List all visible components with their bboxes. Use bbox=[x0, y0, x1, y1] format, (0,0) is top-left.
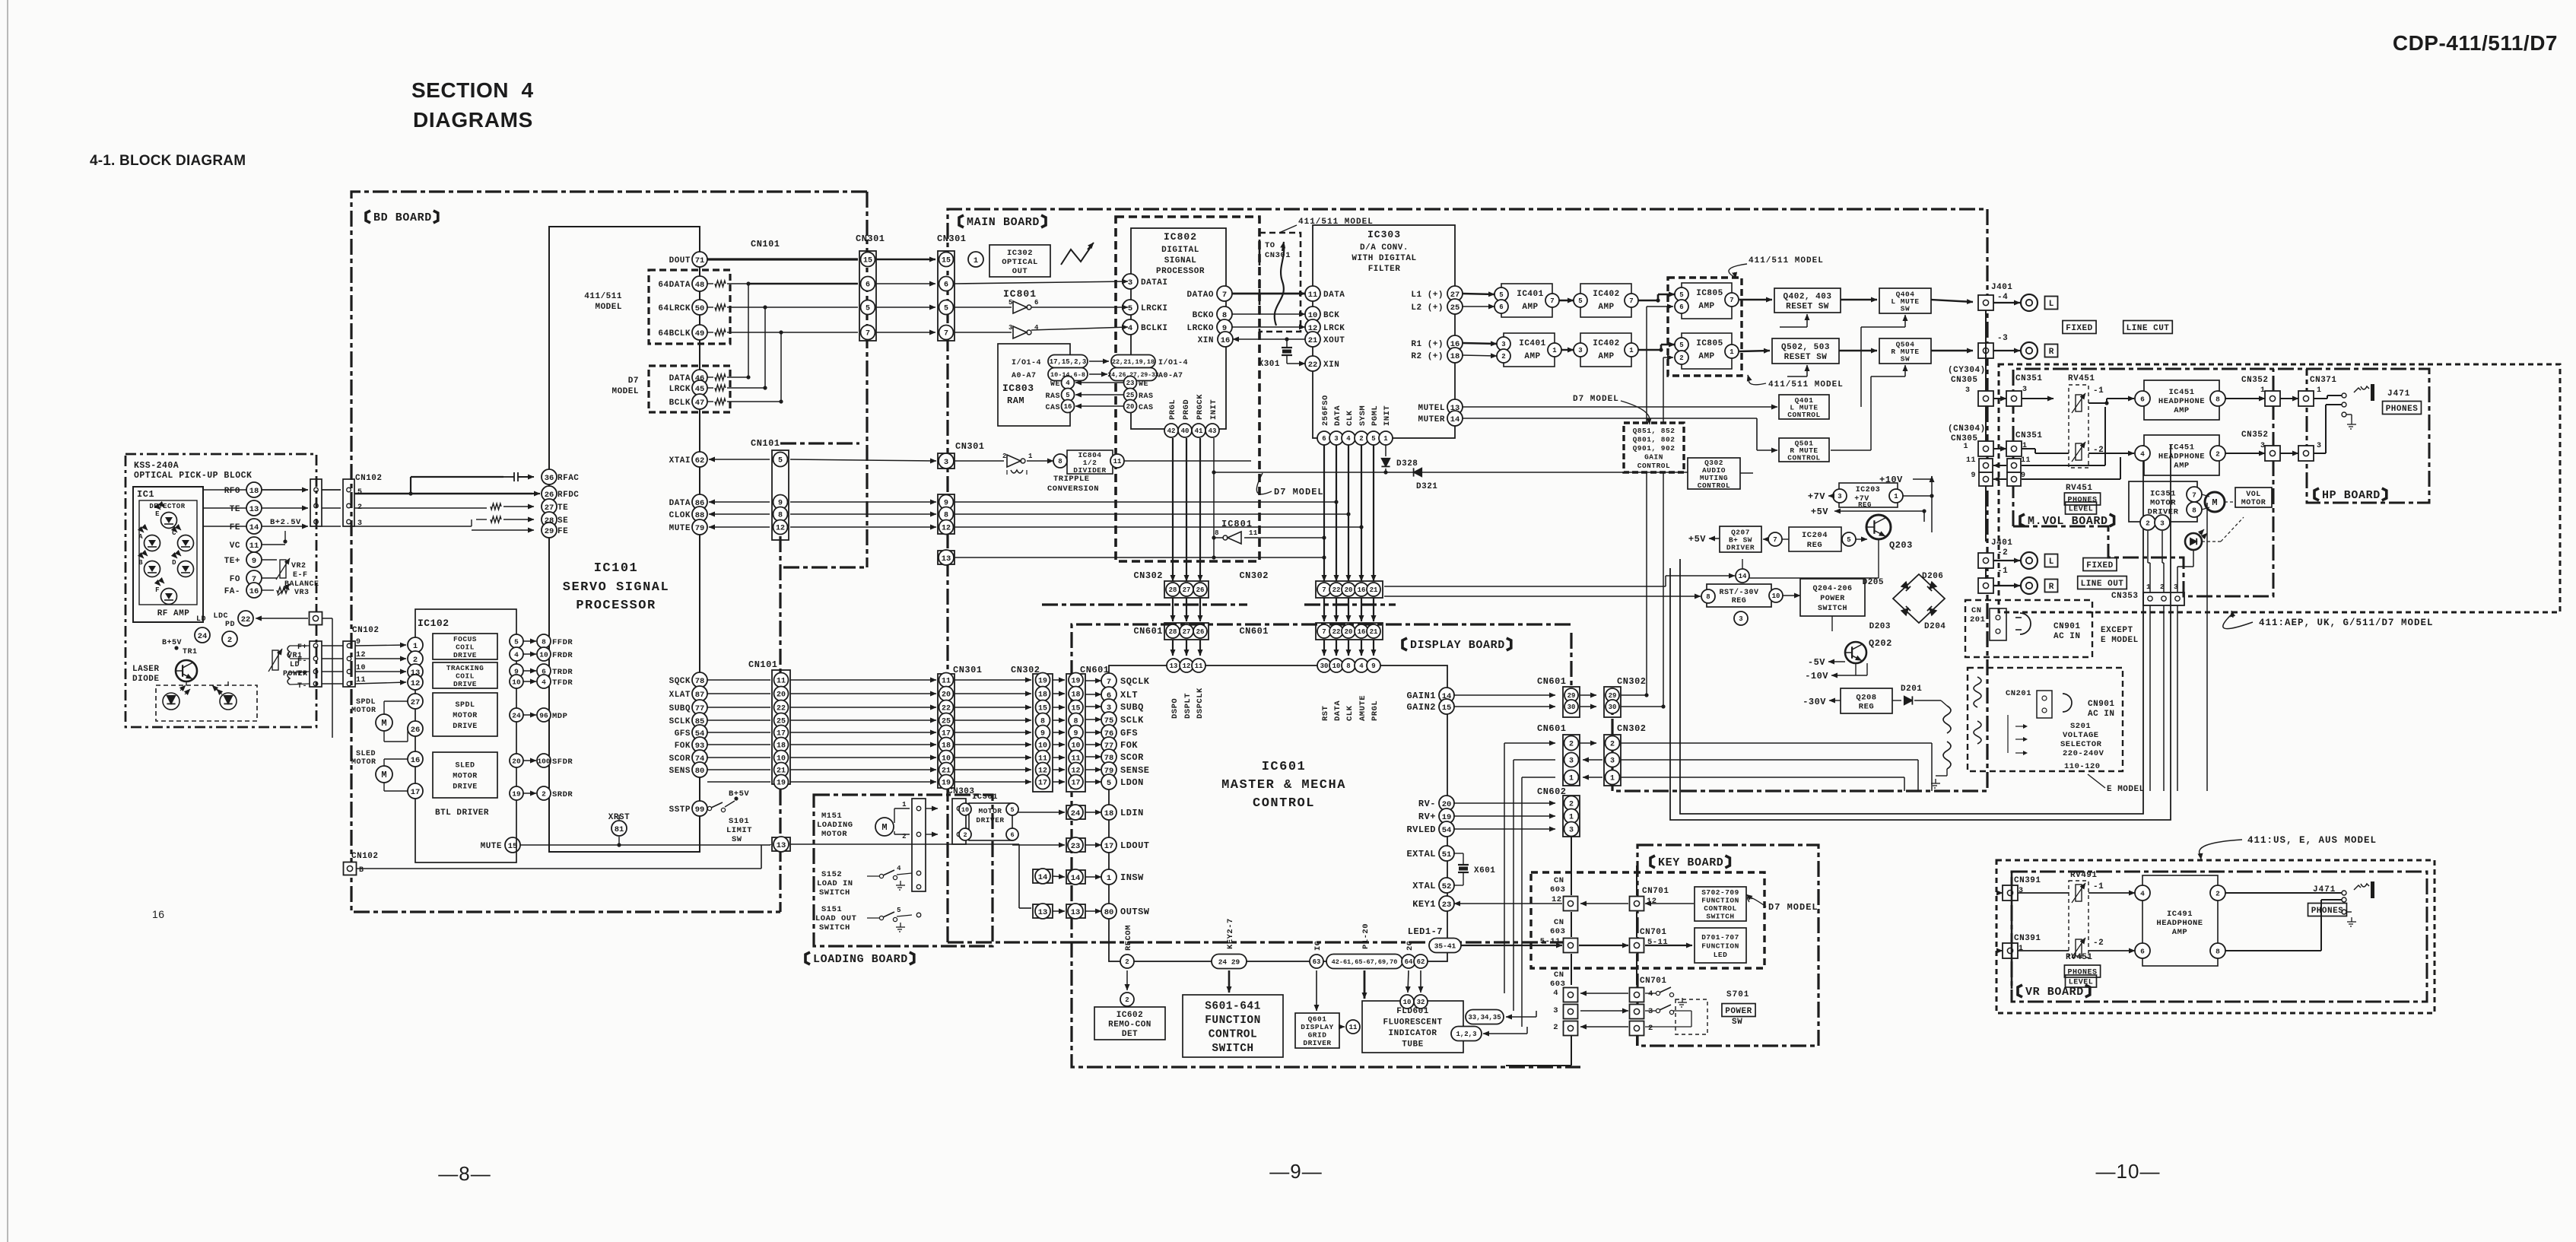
svg-text:MUTEL: MUTEL bbox=[1418, 404, 1445, 413]
svg-text:RV+: RV+ bbox=[1418, 812, 1436, 822]
svg-text:17: 17 bbox=[1038, 780, 1047, 788]
svg-text:IC203: IC203 bbox=[1856, 486, 1881, 494]
svg-text:16: 16 bbox=[411, 756, 421, 765]
svg-text:LEVEL: LEVEL bbox=[2069, 506, 2094, 514]
svg-text:21: 21 bbox=[1308, 336, 1318, 345]
svg-text:DATA: DATA bbox=[669, 499, 691, 508]
svg-text:SFDR: SFDR bbox=[552, 758, 573, 767]
svg-text:18: 18 bbox=[1071, 691, 1080, 700]
svg-text:17: 17 bbox=[411, 788, 421, 797]
svg-text:2: 2 bbox=[1569, 801, 1574, 809]
svg-text:CONVERSION: CONVERSION bbox=[1047, 484, 1099, 494]
svg-text:DATA: DATA bbox=[669, 374, 691, 383]
svg-text:3: 3 bbox=[1008, 324, 1013, 332]
svg-text:11: 11 bbox=[1308, 291, 1318, 300]
svg-text:MOTOR: MOTOR bbox=[821, 830, 847, 839]
svg-text:BD BOARD: BD BOARD bbox=[373, 211, 432, 224]
svg-text:64BCLK: 64BCLK bbox=[658, 329, 691, 338]
svg-text:30: 30 bbox=[1568, 704, 1576, 711]
svg-text:2: 2 bbox=[1501, 353, 1505, 361]
svg-text:REG: REG bbox=[1732, 597, 1747, 605]
svg-text:10: 10 bbox=[961, 806, 969, 814]
svg-text:IC802: IC802 bbox=[1164, 231, 1197, 243]
svg-text:14: 14 bbox=[1739, 573, 1747, 580]
svg-text:411/511 MODEL: 411/511 MODEL bbox=[1749, 256, 1824, 265]
svg-text:14: 14 bbox=[249, 523, 259, 532]
svg-text:8: 8 bbox=[1215, 529, 1219, 537]
svg-text:COIL: COIL bbox=[456, 643, 475, 651]
svg-text:S152: S152 bbox=[821, 870, 842, 879]
svg-text:BCK: BCK bbox=[1323, 311, 1339, 320]
svg-text:SQCK: SQCK bbox=[669, 677, 691, 686]
svg-text:IC1: IC1 bbox=[137, 489, 154, 500]
svg-text:SSTP: SSTP bbox=[669, 805, 691, 815]
svg-text:D7 MODEL: D7 MODEL bbox=[1274, 487, 1324, 497]
svg-text:SCOR: SCOR bbox=[669, 754, 691, 764]
svg-text:99: 99 bbox=[695, 805, 705, 815]
svg-text:5: 5 bbox=[357, 488, 363, 497]
svg-text:IC402: IC402 bbox=[1593, 290, 1620, 299]
svg-text:DSPO: DSPO bbox=[1170, 698, 1180, 719]
svg-text:XTAL: XTAL bbox=[1412, 881, 1436, 891]
svg-text:AMP: AMP bbox=[1698, 302, 1714, 311]
svg-text:62: 62 bbox=[695, 456, 705, 465]
svg-text:RFDC: RFDC bbox=[557, 491, 579, 500]
svg-text:25: 25 bbox=[1126, 392, 1135, 399]
svg-text:CN371: CN371 bbox=[2310, 376, 2337, 385]
svg-text:BCLKI: BCLKI bbox=[1141, 324, 1168, 333]
svg-text:M: M bbox=[381, 770, 386, 780]
svg-text:CN102: CN102 bbox=[355, 474, 383, 483]
svg-text:CLOK: CLOK bbox=[669, 511, 691, 520]
svg-text:DRIVE: DRIVE bbox=[453, 651, 477, 659]
svg-text:10: 10 bbox=[1038, 742, 1047, 751]
svg-text:8: 8 bbox=[1706, 593, 1710, 601]
svg-text:IC303: IC303 bbox=[1367, 229, 1401, 240]
svg-text:RESET SW: RESET SW bbox=[1784, 353, 1828, 362]
svg-text:IC301: IC301 bbox=[972, 793, 998, 802]
svg-text:BCLK: BCLK bbox=[669, 399, 691, 408]
svg-text:15: 15 bbox=[1442, 704, 1452, 713]
svg-text:2: 2 bbox=[227, 636, 232, 645]
svg-text:Q202: Q202 bbox=[1869, 638, 1892, 649]
svg-text:S201: S201 bbox=[2070, 722, 2091, 731]
svg-text:IC801: IC801 bbox=[1003, 288, 1037, 300]
svg-text:DIGITAL: DIGITAL bbox=[1161, 246, 1199, 255]
svg-text:MOTOR: MOTOR bbox=[978, 807, 1002, 815]
svg-text:MOTOR: MOTOR bbox=[2241, 499, 2266, 507]
svg-text:—10—: —10— bbox=[2096, 1160, 2161, 1183]
svg-text:KEY2-7: KEY2-7 bbox=[1226, 918, 1235, 949]
svg-text:CN102: CN102 bbox=[351, 852, 379, 861]
svg-text:CN901: CN901 bbox=[2053, 622, 2081, 631]
svg-text:PROCESSOR: PROCESSOR bbox=[1156, 267, 1205, 276]
svg-text:DRIVE: DRIVE bbox=[453, 723, 478, 731]
svg-text:GAIN: GAIN bbox=[1644, 453, 1663, 461]
svg-text:TRACKING: TRACKING bbox=[446, 664, 484, 672]
svg-text:FILTER: FILTER bbox=[1368, 265, 1401, 274]
svg-text:POWER: POWER bbox=[1725, 1007, 1752, 1016]
svg-text:30: 30 bbox=[1320, 662, 1329, 670]
svg-text:45: 45 bbox=[695, 385, 705, 394]
svg-text:VR2: VR2 bbox=[291, 562, 307, 570]
svg-text:7: 7 bbox=[1322, 628, 1326, 636]
svg-text:MUTE: MUTE bbox=[481, 842, 502, 851]
svg-text:LINE OUT: LINE OUT bbox=[2081, 580, 2124, 589]
svg-text:7: 7 bbox=[866, 330, 870, 338]
svg-text:IC102: IC102 bbox=[418, 618, 449, 629]
svg-text:7: 7 bbox=[944, 330, 948, 338]
svg-text:CN101: CN101 bbox=[751, 438, 780, 449]
svg-text:19: 19 bbox=[512, 789, 521, 798]
svg-text:PGML: PGML bbox=[1371, 405, 1380, 426]
svg-text:41: 41 bbox=[1195, 427, 1203, 435]
svg-text:79: 79 bbox=[695, 524, 705, 533]
svg-text:X301: X301 bbox=[1259, 360, 1280, 369]
svg-text:CN601: CN601 bbox=[1537, 723, 1567, 734]
svg-text:3: 3 bbox=[2022, 386, 2028, 394]
svg-text:16: 16 bbox=[1064, 403, 1072, 411]
svg-text:D205: D205 bbox=[1863, 578, 1884, 587]
svg-text:603: 603 bbox=[1550, 885, 1565, 894]
svg-text:MOTOR: MOTOR bbox=[351, 707, 376, 715]
svg-text:MOTOR: MOTOR bbox=[351, 758, 376, 767]
svg-text:4: 4 bbox=[1346, 435, 1351, 443]
svg-text:J471: J471 bbox=[2387, 389, 2410, 399]
svg-text:CN302: CN302 bbox=[1133, 570, 1163, 581]
svg-text:8: 8 bbox=[944, 512, 948, 520]
svg-text:SWITCH: SWITCH bbox=[1706, 913, 1734, 921]
svg-text:2: 2 bbox=[1002, 453, 1007, 460]
svg-text:CN: CN bbox=[1554, 876, 1564, 885]
svg-text:20: 20 bbox=[1126, 403, 1135, 411]
svg-text:26: 26 bbox=[545, 491, 554, 500]
svg-text:4: 4 bbox=[542, 678, 546, 686]
svg-text:X601: X601 bbox=[1474, 866, 1495, 875]
svg-text:E MODEL: E MODEL bbox=[2101, 636, 2139, 645]
svg-text:B: B bbox=[138, 559, 143, 567]
svg-text:FOK: FOK bbox=[1120, 740, 1138, 751]
svg-text:49: 49 bbox=[695, 329, 705, 338]
svg-text:LED1-7: LED1-7 bbox=[1408, 926, 1443, 937]
svg-text:12: 12 bbox=[942, 525, 951, 533]
svg-text:COIL: COIL bbox=[456, 672, 475, 680]
svg-text:TE: TE bbox=[230, 505, 240, 514]
svg-text:MOTOR: MOTOR bbox=[453, 712, 478, 720]
svg-text:CLK: CLK bbox=[1345, 410, 1355, 426]
svg-text:D201: D201 bbox=[1901, 685, 1922, 694]
svg-text:DETECTOR: DETECTOR bbox=[149, 503, 185, 510]
svg-text:-1: -1 bbox=[1997, 567, 2008, 576]
svg-text:6: 6 bbox=[1034, 299, 1039, 307]
svg-text:22,21,19,18: 22,21,19,18 bbox=[1112, 358, 1155, 366]
svg-text:-3: -3 bbox=[1997, 334, 2008, 343]
svg-text:50: 50 bbox=[695, 304, 705, 313]
svg-text:5: 5 bbox=[944, 305, 948, 313]
svg-text:REG: REG bbox=[1859, 702, 1874, 711]
svg-text:E: E bbox=[155, 510, 160, 518]
svg-text:SWITCH: SWITCH bbox=[1818, 605, 1847, 613]
svg-text:SLED: SLED bbox=[356, 750, 376, 758]
svg-text:4: 4 bbox=[1066, 380, 1070, 387]
svg-text:L: L bbox=[2049, 557, 2054, 567]
svg-text:S151: S151 bbox=[821, 905, 842, 914]
svg-text:M: M bbox=[381, 718, 386, 729]
svg-text:EXCEPT: EXCEPT bbox=[2101, 626, 2133, 635]
svg-text:11: 11 bbox=[2021, 456, 2031, 465]
svg-text:LDOUT: LDOUT bbox=[1120, 840, 1150, 851]
svg-text:RECOM: RECOM bbox=[1124, 925, 1133, 951]
svg-text:7: 7 bbox=[1629, 297, 1633, 305]
svg-text:RFAC: RFAC bbox=[557, 474, 579, 483]
svg-text:IC351: IC351 bbox=[2150, 489, 2176, 498]
svg-text:CN701: CN701 bbox=[1640, 977, 1667, 986]
svg-text:1: 1 bbox=[1383, 435, 1388, 443]
svg-text:LRCKO: LRCKO bbox=[1186, 324, 1214, 333]
svg-text:100: 100 bbox=[537, 757, 550, 765]
svg-text:62: 62 bbox=[1417, 958, 1425, 966]
svg-text:411/511: 411/511 bbox=[584, 292, 622, 301]
svg-text:VR3: VR3 bbox=[294, 589, 310, 597]
svg-text:-1: -1 bbox=[2093, 882, 2104, 891]
svg-text:2: 2 bbox=[1648, 1024, 1653, 1033]
svg-text:4: 4 bbox=[2140, 889, 2145, 897]
svg-text:L1 (+): L1 (+) bbox=[1411, 291, 1444, 300]
svg-text:+5V: +5V bbox=[1688, 534, 1706, 545]
svg-text:3: 3 bbox=[1107, 704, 1111, 713]
svg-text:IC601: IC601 bbox=[1262, 760, 1307, 774]
svg-text:8: 8 bbox=[542, 637, 546, 646]
svg-text:2: 2 bbox=[1125, 996, 1129, 1004]
svg-text:5: 5 bbox=[1128, 304, 1132, 313]
svg-text:+5V: +5V bbox=[1811, 507, 1828, 517]
svg-text:42: 42 bbox=[1167, 427, 1176, 435]
svg-text:LASER: LASER bbox=[132, 665, 160, 674]
svg-text:CAS: CAS bbox=[1045, 404, 1060, 412]
svg-text:10: 10 bbox=[1071, 742, 1080, 751]
svg-text:(CY304): (CY304) bbox=[1948, 366, 1986, 375]
svg-text:10: 10 bbox=[1772, 592, 1780, 600]
svg-text:D206: D206 bbox=[1922, 572, 1943, 581]
svg-text:(CN304): (CN304) bbox=[1948, 424, 1986, 434]
svg-text:PD: PD bbox=[225, 621, 235, 629]
svg-text:IC101: IC101 bbox=[594, 561, 639, 576]
svg-text:8: 8 bbox=[2215, 395, 2220, 403]
svg-text:LEVEL: LEVEL bbox=[2069, 979, 2094, 987]
svg-text:XLT: XLT bbox=[1120, 690, 1138, 700]
svg-text:IC302: IC302 bbox=[1007, 249, 1033, 258]
svg-text:17: 17 bbox=[1104, 842, 1114, 851]
svg-text:D204: D204 bbox=[1924, 622, 1945, 631]
svg-text:IC602: IC602 bbox=[1116, 1011, 1144, 1020]
svg-text:10: 10 bbox=[1403, 999, 1412, 1006]
svg-text:RF AMP: RF AMP bbox=[157, 609, 190, 618]
svg-text:RAS: RAS bbox=[1045, 392, 1060, 401]
svg-text:7: 7 bbox=[1773, 536, 1777, 544]
svg-text:3: 3 bbox=[1501, 341, 1505, 348]
svg-text:LOADING: LOADING bbox=[817, 821, 853, 830]
svg-text:B+5V: B+5V bbox=[162, 639, 182, 647]
svg-text:BTL DRIVER: BTL DRIVER bbox=[435, 808, 489, 818]
svg-text:3: 3 bbox=[1610, 758, 1615, 766]
svg-text:24: 24 bbox=[1071, 809, 1081, 818]
svg-text:LDIN: LDIN bbox=[1120, 808, 1144, 818]
svg-text:RAS: RAS bbox=[1139, 392, 1154, 401]
svg-text:4: 4 bbox=[1648, 989, 1653, 999]
svg-text:DISPLAY: DISPLAY bbox=[1301, 1023, 1333, 1031]
svg-text:110-120: 110-120 bbox=[2064, 762, 2101, 771]
svg-text:17: 17 bbox=[1071, 780, 1080, 788]
svg-text:FRDR: FRDR bbox=[552, 651, 573, 660]
svg-text:51: 51 bbox=[1442, 850, 1452, 859]
svg-text:29: 29 bbox=[545, 527, 554, 536]
svg-text:17,15,2,3: 17,15,2,3 bbox=[1050, 358, 1087, 366]
svg-text:TUBE: TUBE bbox=[1402, 1040, 1423, 1050]
svg-text:12: 12 bbox=[411, 679, 421, 688]
svg-text:13: 13 bbox=[1071, 908, 1081, 917]
svg-text:40: 40 bbox=[1181, 427, 1190, 435]
svg-text:64LRCK: 64LRCK bbox=[658, 304, 691, 313]
svg-text:24 29: 24 29 bbox=[1218, 958, 1240, 966]
svg-text:26: 26 bbox=[1196, 586, 1205, 594]
svg-text:2: 2 bbox=[542, 789, 546, 798]
svg-text:6: 6 bbox=[2140, 947, 2145, 955]
svg-text:20: 20 bbox=[1345, 586, 1353, 594]
svg-text:FA-: FA- bbox=[224, 587, 240, 596]
svg-text:77: 77 bbox=[695, 704, 705, 713]
svg-text:5: 5 bbox=[1066, 392, 1069, 399]
svg-text:12: 12 bbox=[776, 525, 785, 533]
svg-text:-5V: -5V bbox=[1808, 657, 1825, 668]
svg-text:14: 14 bbox=[1450, 415, 1460, 424]
svg-text:WITH DIGITAL: WITH DIGITAL bbox=[1352, 254, 1416, 263]
svg-text:8: 8 bbox=[2192, 506, 2196, 514]
svg-text:AMP: AMP bbox=[2174, 461, 2189, 470]
svg-text:CN302: CN302 bbox=[1617, 676, 1647, 687]
svg-text:1: 1 bbox=[1569, 814, 1574, 822]
svg-text:7: 7 bbox=[2192, 491, 2196, 499]
svg-text:VOLTAGE: VOLTAGE bbox=[2063, 731, 2099, 740]
svg-text:2: 2 bbox=[1610, 741, 1615, 749]
svg-text:SE: SE bbox=[557, 516, 568, 526]
svg-text:LOADING BOARD: LOADING BOARD bbox=[813, 953, 908, 966]
svg-text:D7 MODEL: D7 MODEL bbox=[1573, 395, 1619, 404]
svg-text:18: 18 bbox=[1104, 809, 1114, 818]
svg-text:5: 5 bbox=[1107, 779, 1111, 788]
svg-text:20: 20 bbox=[1345, 628, 1353, 636]
svg-text:96: 96 bbox=[539, 711, 548, 719]
svg-text:SW: SW bbox=[1732, 1018, 1742, 1027]
svg-text:CN301: CN301 bbox=[937, 233, 967, 244]
svg-text:CN601: CN601 bbox=[1239, 626, 1269, 637]
svg-text:11: 11 bbox=[777, 678, 786, 686]
svg-text:TRIPPLE: TRIPPLE bbox=[1053, 475, 1090, 484]
svg-text:WE: WE bbox=[1050, 380, 1060, 389]
svg-text:33,34,35: 33,34,35 bbox=[1468, 1014, 1501, 1021]
svg-text:1,2,3: 1,2,3 bbox=[1456, 1031, 1476, 1038]
svg-text:D/A CONV.: D/A CONV. bbox=[1360, 243, 1409, 253]
svg-text:OUTSW: OUTSW bbox=[1120, 907, 1150, 917]
svg-text:CN301: CN301 bbox=[1265, 251, 1291, 260]
svg-text:DOUT: DOUT bbox=[669, 256, 691, 265]
svg-text:8: 8 bbox=[778, 512, 783, 520]
svg-text:4: 4 bbox=[1359, 662, 1364, 670]
svg-text:18: 18 bbox=[942, 742, 951, 751]
svg-text:22: 22 bbox=[1332, 628, 1341, 636]
svg-text:5: 5 bbox=[897, 907, 901, 914]
svg-text:PRGCK: PRGCK bbox=[1196, 394, 1205, 420]
svg-text:81: 81 bbox=[615, 825, 624, 834]
svg-text:CN352: CN352 bbox=[2241, 430, 2269, 440]
svg-text:64: 64 bbox=[1405, 958, 1413, 966]
svg-text:DRIVE: DRIVE bbox=[453, 783, 478, 792]
svg-text:INSW: INSW bbox=[1120, 872, 1144, 883]
svg-text:80: 80 bbox=[695, 767, 705, 776]
svg-text:1: 1 bbox=[1028, 453, 1033, 460]
svg-text:5: 5 bbox=[778, 457, 783, 465]
svg-text:TO: TO bbox=[1265, 241, 1275, 250]
svg-text:-2: -2 bbox=[1997, 548, 2008, 557]
svg-text:5: 5 bbox=[1679, 341, 1683, 349]
svg-text:CN301: CN301 bbox=[953, 665, 983, 675]
svg-text:2: 2 bbox=[1553, 1023, 1558, 1032]
svg-text:64DATA: 64DATA bbox=[658, 281, 691, 290]
svg-text:KEY1: KEY1 bbox=[1412, 899, 1436, 910]
svg-text:HP BOARD: HP BOARD bbox=[2322, 489, 2381, 502]
svg-text:FIXED: FIXED bbox=[2086, 561, 2114, 570]
svg-text:1: 1 bbox=[1894, 493, 1898, 500]
svg-text:15: 15 bbox=[863, 257, 872, 265]
svg-text:RST: RST bbox=[1321, 706, 1330, 721]
svg-text:R: R bbox=[2049, 348, 2054, 357]
svg-text:5: 5 bbox=[866, 305, 870, 313]
svg-text:7: 7 bbox=[1322, 586, 1326, 594]
svg-text:EXTAL: EXTAL bbox=[1406, 849, 1436, 859]
svg-text:Q801, 802: Q801, 802 bbox=[1633, 435, 1676, 443]
svg-text:SWITCH: SWITCH bbox=[1212, 1043, 1253, 1055]
svg-text:SLED: SLED bbox=[455, 762, 475, 770]
svg-text:19: 19 bbox=[1442, 813, 1452, 822]
svg-text:DATA: DATA bbox=[1333, 700, 1342, 721]
svg-text:SECTION 4: SECTION 4 bbox=[411, 78, 534, 102]
svg-text:MUTE: MUTE bbox=[669, 524, 691, 533]
svg-text:27: 27 bbox=[545, 503, 554, 513]
svg-text:3: 3 bbox=[1965, 386, 1971, 395]
svg-text:FUNCTION: FUNCTION bbox=[1701, 897, 1739, 905]
svg-text:19: 19 bbox=[1038, 678, 1047, 686]
svg-text:1: 1 bbox=[1569, 775, 1574, 783]
svg-text:SWITCH: SWITCH bbox=[819, 923, 850, 932]
svg-text:WE: WE bbox=[1139, 380, 1148, 389]
svg-text:2: 2 bbox=[413, 656, 418, 665]
svg-text:CN352: CN352 bbox=[2241, 376, 2269, 385]
svg-text:13: 13 bbox=[777, 841, 786, 850]
svg-text:CONTROL: CONTROL bbox=[1637, 462, 1670, 470]
svg-text:19: 19 bbox=[777, 780, 786, 788]
svg-text:SIGNAL: SIGNAL bbox=[1164, 256, 1197, 265]
svg-text:6: 6 bbox=[944, 281, 948, 290]
svg-text:IC401: IC401 bbox=[1517, 290, 1544, 299]
svg-text:PHONES: PHONES bbox=[2067, 969, 2097, 977]
svg-text:71: 71 bbox=[695, 256, 705, 265]
svg-text:SENSE: SENSE bbox=[1120, 765, 1150, 776]
svg-text:REMO-CON: REMO-CON bbox=[1108, 1020, 1151, 1029]
svg-text:23: 23 bbox=[1071, 842, 1081, 851]
svg-text:I/O1-4: I/O1-4 bbox=[1012, 358, 1041, 367]
svg-text:AMUTE: AMUTE bbox=[1358, 695, 1367, 721]
svg-text:VC: VC bbox=[230, 542, 240, 551]
svg-text:7: 7 bbox=[1107, 678, 1111, 687]
